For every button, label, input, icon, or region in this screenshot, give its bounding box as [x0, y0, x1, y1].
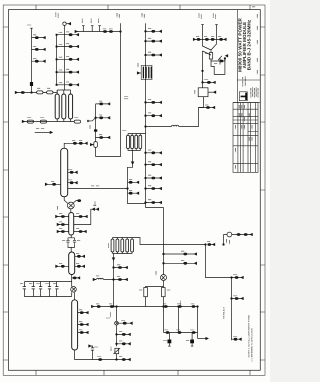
capacitor C20 rail V2 stub: [145, 150, 162, 154]
node ladder bead marks: [59, 33, 63, 83]
notes text block: [223, 306, 254, 361]
wire comb output with arrow: [128, 150, 146, 203]
ferrite bead FB2: [56, 34, 58, 36]
capacitor C21 rail V2 stub: [145, 162, 162, 166]
bias bus horizontal: [94, 306, 198, 308]
wire stub up A: [82, 19, 85, 32]
output LPF bottom bus: [25, 294, 72, 297]
capacitor C70 series sub bus: [177, 330, 182, 334]
capacitor C82 J2 stub: [119, 320, 133, 324]
capacitor C23 rail V2 stub: [145, 186, 162, 190]
stripline TL2b: [131, 135, 134, 148]
capacitor C11 series on feed bus: [109, 29, 113, 33]
capacitor C41 TL4 right stub: [75, 264, 85, 268]
inductor L6 in line lower: [27, 118, 33, 124]
title block logo box: [239, 92, 247, 101]
wire right rail down: [231, 278, 233, 341]
stripline TL2c: [135, 135, 138, 148]
comb filter riser wires: [128, 134, 140, 136]
node junction rail V2 feed: [145, 126, 147, 128]
capacitor C64 driver stub: [163, 261, 197, 265]
title block table row lines: [233, 109, 258, 163]
border inner frame: [9, 10, 261, 371]
capacitor C77 rail B right stub: [217, 37, 227, 41]
wire stub up B: [91, 19, 94, 32]
transistor Q1: [64, 197, 81, 213]
stripline TL6e: [131, 239, 134, 252]
node input bus terminal: [15, 91, 17, 93]
capacitor C45 shunt: [37, 282, 43, 294]
wire stripline top header: [57, 90, 70, 94]
capacitor C73 tantalum: [186, 333, 194, 347]
capacitor C46 shunt: [46, 282, 52, 294]
stripline TL4: [69, 252, 75, 275]
transistor Q2: [71, 282, 77, 297]
capacitor C7 stub: [65, 69, 79, 73]
node rail A top: [199, 14, 204, 25]
transistor Q3: [156, 271, 167, 281]
capacitor C42 small stub: [72, 277, 80, 279]
wire ladder rungs: [57, 35, 65, 85]
arrow U1 right stub: [208, 91, 216, 93]
stripline TL1 input line: [61, 148, 68, 196]
capacitor C65 feedback stub: [205, 242, 215, 246]
capacitor C35 TL3 left stub low: [57, 229, 69, 233]
node bus left terminal: [92, 305, 94, 307]
node left rail top terminal: [28, 25, 33, 28]
wire stripline bottom header: [25, 119, 75, 122]
capacitor C40 TL4 left stub: [56, 264, 69, 268]
capacitor C15 rail V2 stub: [145, 29, 162, 33]
node junction interstage: [127, 188, 129, 190]
filter FL1 feedthrough block on rail V2: [137, 63, 152, 80]
ferrite bead FB7 on branch: [94, 129, 97, 131]
capacitor C79 stub: [113, 276, 128, 280]
resistor R3 regulator network: [205, 50, 213, 61]
inductor L4 in line: [37, 88, 43, 94]
node 28V label: [56, 13, 58, 19]
node junction sub bus2: [197, 306, 199, 308]
resistor R1: [139, 288, 147, 307]
wire feedback to right rail: [206, 245, 232, 278]
inductor L9 in line on branch: [90, 142, 97, 148]
wire left bias rail: [31, 28, 33, 82]
wire TL5 bottom to output bus: [75, 350, 117, 360]
capacitor C47 shunt: [53, 282, 59, 294]
border zone ticks: [3, 5, 265, 375]
capacitor C27 on TL1 top: [72, 141, 76, 145]
capacitor C53 chain stub: [116, 332, 131, 336]
wire Q2 to TL5: [74, 293, 76, 300]
capacitor C61 series: [177, 304, 181, 308]
capacitor C50 TL5 right stub: [78, 330, 89, 334]
capacitor C62 series: [191, 304, 195, 308]
arrow supply out: [198, 337, 209, 339]
wire bias feed long: [146, 108, 213, 127]
title block table cell texts: [236, 105, 253, 170]
wire branch vertical: [95, 104, 97, 157]
capacitor C37 parallel pair a: [62, 241, 70, 246]
wire output chain vertical: [116, 307, 118, 360]
potentiometer RV1: [211, 55, 228, 65]
node comb label: [108, 244, 110, 249]
stripline TL2d: [139, 135, 142, 148]
svg-text:T/R SELECT: T/R SELECT: [223, 306, 226, 319]
wire interstage horizontal: [68, 188, 128, 190]
stripline TL2a: [127, 135, 130, 148]
capacitor C68 right rail bottom stub: [232, 336, 242, 340]
stripline TLC: [69, 94, 73, 119]
wire ladder left line: [56, 35, 58, 85]
capacitor C81 rail V2 stub: [145, 200, 162, 204]
border outer frame: [3, 5, 265, 375]
ferrite bead FB5: [56, 71, 58, 73]
capacitor C5 stub: [65, 44, 79, 48]
capacitor C44 shunt: [29, 282, 35, 294]
capacitor C63 driver stub: [163, 251, 197, 255]
title block logo glyph: [241, 93, 247, 100]
ferrite bead FB4: [56, 58, 58, 60]
node rail V1 turn label: [123, 130, 127, 132]
wire rail V1 vertical: [96, 23, 121, 156]
sense cluster B+: [223, 232, 253, 245]
capacitor C59 series: [109, 304, 113, 308]
node junction reg branch: [202, 70, 204, 72]
title block divider under title text: [237, 79, 260, 81]
wire rail V2 vertical: [145, 23, 147, 207]
svg-text:NOTES: 1. NOT ALL COMPONENTS: NOTES: 1. NOT ALL COMPONENTS FITTED: [247, 314, 250, 357]
capacitor C57 stub: [113, 265, 128, 269]
wire top feed bus: [77, 31, 120, 33]
stripline TL5 output line: [72, 300, 78, 350]
ferrite bead FB6: [56, 84, 58, 86]
capacitor C17 rail V2 stub: [145, 52, 162, 56]
feedback comb bottom bus: [113, 252, 133, 254]
capacitor C39 TL4 right stub: [75, 254, 85, 258]
node junction chain top: [116, 306, 118, 308]
node lower bus terminal: [22, 120, 24, 122]
IC U1 bias regulator box: [195, 88, 208, 97]
capacitor C12 branch stub top: [96, 101, 110, 105]
node junction left rail bus: [31, 92, 33, 94]
svg-text:BAND B-J 245-320MHz: BAND B-J 245-320MHz: [247, 19, 252, 70]
stripline TL6c: [121, 239, 124, 252]
capacitor C34 TL3 left stub: [57, 222, 69, 226]
wire TL3 bottom split: [68, 235, 75, 252]
wire TL3 to TR node: [74, 209, 97, 224]
inductor L1 stub: [32, 58, 46, 62]
node junction sub bus: [178, 306, 180, 308]
title block sheet column marks: [256, 14, 258, 75]
node rail V1 label: [117, 13, 119, 19]
wire regulator rail B: [211, 25, 217, 50]
svg-text:2. C REFERRED TO APPLICATION: 2. C REFERRED TO APPLICATION: [250, 328, 253, 362]
trimmer C55 on chain: [111, 347, 120, 354]
comb filter top bus: [128, 133, 146, 135]
capacitor C80 series input: [21, 91, 24, 93]
title block divider under logo row: [233, 102, 260, 104]
capacitor C74 rail A left stub: [193, 37, 202, 41]
capacitor C49 TL5 right stub: [78, 322, 89, 326]
capacitor C25 stub: [128, 180, 139, 184]
capacitor C14 branch stub low: [96, 135, 110, 139]
node junction bias bus: [113, 306, 115, 308]
capacitor C26 stub: [128, 190, 139, 194]
stripline TLB: [62, 94, 66, 119]
node branch input blob: [87, 118, 96, 130]
capacitor C16 rail V2 stub: [145, 38, 162, 42]
capacitor C2 stub: [32, 47, 46, 51]
connector J2 output: [107, 313, 119, 326]
wire bead to bus: [31, 86, 33, 93]
stripline TL6a: [111, 239, 114, 252]
TITLE BLOCK: [233, 10, 260, 173]
capacitor C60 series: [163, 304, 167, 308]
title block table outline: [233, 103, 258, 173]
capacitor C71 series sub bus: [191, 330, 196, 334]
capacitor C67 right rail stub: [231, 296, 244, 300]
ferrite bead FB3: [56, 46, 58, 48]
capacitor C22 rail V2 stub: [145, 175, 162, 179]
title block company text: [243, 77, 258, 98]
connector J1 28V input: [63, 22, 71, 25]
title block left border: [236, 10, 238, 103]
wire regulator loop: [211, 58, 225, 74]
node junction feed bus rail V1: [120, 31, 122, 33]
arrow RF input: [35, 129, 53, 134]
wire U1 output down: [199, 97, 204, 108]
wire input bus upper: [18, 90, 58, 93]
ferrite bead FB1: [30, 82, 33, 86]
node rail B top: [213, 14, 218, 25]
capacitor C48 TL5 right stub: [78, 310, 89, 314]
inductor L7 in line lower: [40, 118, 46, 124]
comb filter bottom bus: [128, 149, 140, 151]
capacitor C69 series sub bus: [165, 330, 170, 334]
wire TL4 bottom: [71, 275, 73, 282]
stripline TL3: [69, 213, 74, 236]
stripline TLA: [55, 94, 59, 119]
capacitor C28 on TL1 top: [79, 141, 87, 145]
capacitor C43 shunt: [20, 282, 26, 294]
capacitor C1 stub: [32, 35, 46, 39]
title block table column lines: [238, 103, 256, 173]
capacitor C36 TL3 right stub low: [74, 229, 87, 233]
wire driver rail: [146, 208, 164, 287]
inductor L2 on bias feed: [172, 125, 179, 126]
inductor L3 stub: [93, 276, 114, 281]
capacitor C33 TL3 right stub: [74, 214, 88, 218]
node junction sub bus3: [163, 306, 165, 308]
capacitor C51 on output bus riser: [89, 345, 98, 360]
node rail V2 label: [142, 13, 144, 19]
capacitor C54 chain stub: [116, 341, 131, 345]
capacitor C76 rail B left stub: [210, 37, 216, 41]
wire 28V rail vertical: [64, 25, 66, 90]
border zone number: [252, 6, 256, 8]
stripline TL6b: [116, 239, 119, 252]
wire mid vertical drop with arrow: [112, 254, 114, 307]
capacitor C32 TL3 left stub: [56, 214, 69, 218]
inductor L8 in line lower right: [74, 118, 80, 124]
wire TL1 top riser: [64, 143, 85, 148]
capacitor C4 stub: [65, 32, 79, 36]
capacitor C31 TL1 left stub: [45, 182, 60, 186]
capacitor C13 branch stub mid: [95, 115, 110, 119]
wire regulator rail A: [203, 25, 212, 50]
capacitor C19 rail V2 stub: [145, 113, 162, 117]
node sub bus label: [180, 301, 182, 306]
capacitor C24 series on bias feed: [205, 105, 215, 109]
wire regulator left branch: [203, 51, 212, 88]
arrow TR pair: [92, 202, 98, 211]
node rail V1 mid text: [125, 97, 129, 99]
capacitor C6 stub: [65, 57, 79, 61]
node Q1 label: [57, 206, 59, 211]
resistor R2: [162, 288, 171, 307]
wire stub up C: [98, 19, 101, 32]
capacitor C30 TL1 right stub: [68, 180, 78, 184]
capacitor C78 reg stub: [202, 80, 216, 84]
capacitor C66 right rail stub: [231, 275, 244, 279]
capacitor C58 series: [96, 304, 100, 308]
capacitor C72 tantalum: [164, 333, 172, 347]
wire R1 R2 top bus: [146, 287, 164, 288]
capacitor C75 rail A right stub: [203, 37, 210, 41]
capacitor C29 TL1 right stub: [68, 170, 78, 174]
output LPF top bus: [25, 281, 72, 283]
node feed bus left terminal: [75, 30, 77, 32]
capacitor C56 chain bottom stub: [116, 357, 131, 361]
capacitor C38 parallel pair b: [73, 241, 81, 246]
capacitor C10 series on feed bus: [103, 29, 107, 33]
wire supply sub bus: [164, 307, 198, 339]
stripline TL6d: [126, 239, 129, 252]
inductor L5 in line: [47, 88, 53, 94]
label interstage net: [91, 185, 100, 187]
capacitor C8 stub: [65, 82, 79, 86]
capacitor C52 series output bus: [98, 357, 102, 361]
feedback comb top bus: [113, 238, 206, 245]
capacitor C18 rail V2 stub: [145, 100, 162, 104]
